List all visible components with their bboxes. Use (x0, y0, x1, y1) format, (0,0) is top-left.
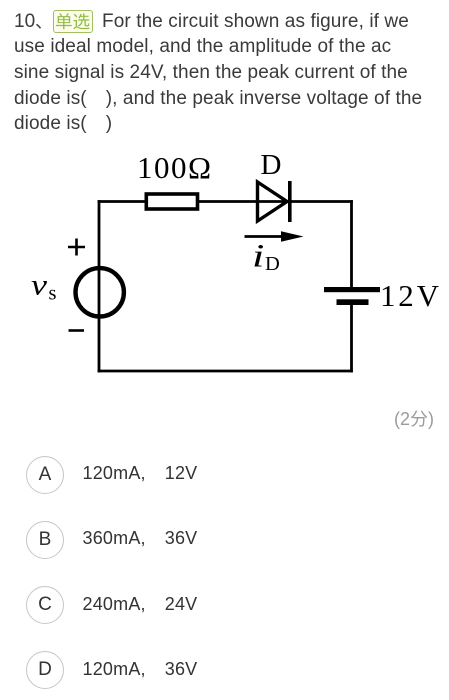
svg-text:100Ω: 100Ω (137, 150, 213, 185)
wire: top horizontal (98, 200, 353, 203)
svg-text:12V: 12V (380, 278, 442, 313)
wire: bottom horizontal (98, 370, 353, 373)
option C (26, 586, 64, 624)
score (2 fen) (394, 409, 434, 430)
battery plate short (337, 299, 369, 305)
wire: right vertical (below battery) (350, 305, 353, 372)
diode D triangle (258, 182, 288, 221)
svg-text:v: v (31, 268, 47, 301)
option B (26, 521, 64, 559)
wire: right vertical (above battery) (350, 200, 353, 287)
svg-text:i: i (252, 238, 264, 274)
question text (14, 9, 422, 138)
option D (26, 651, 64, 689)
plus sign (68, 246, 85, 249)
current arrow iD (245, 235, 285, 238)
svg-text:D: D (265, 253, 280, 275)
diode D cathode bar (288, 181, 292, 222)
option A (26, 456, 64, 494)
minus sign (69, 329, 85, 332)
svg-text:s: s (49, 282, 57, 304)
svg-text:D: D (261, 149, 282, 181)
battery plate long (324, 287, 380, 292)
resistor R 100ohm box (146, 194, 197, 209)
wire: left vertical (98, 200, 101, 372)
source vs circle (76, 268, 124, 316)
